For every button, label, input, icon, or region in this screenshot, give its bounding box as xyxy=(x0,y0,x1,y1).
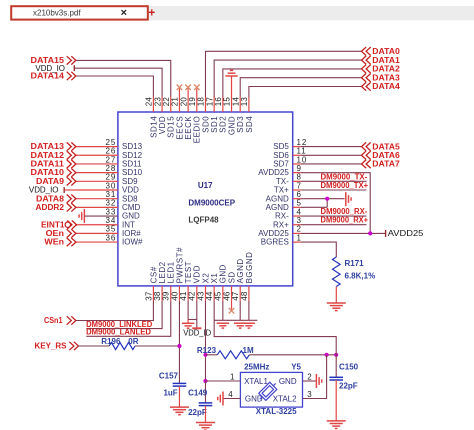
svg-text:DATA0: DATA0 xyxy=(372,47,400,56)
net label CSn1 xyxy=(44,316,76,325)
wire SD1 pin to DATA1 xyxy=(214,60,361,97)
ground at crystal pin 4 (sideways) xyxy=(218,392,223,406)
pin 12 SD5 stub (right) xyxy=(293,146,301,148)
svg-text:EINT1: EINT1 xyxy=(41,220,65,229)
net label DATA7 xyxy=(362,160,401,169)
wire TX+ with label DM9000_TX+ xyxy=(301,181,369,190)
svg-text:DATA13: DATA13 xyxy=(31,142,65,151)
net label OEn xyxy=(46,229,76,238)
svg-text:21: 21 xyxy=(171,97,180,107)
ground below R171 xyxy=(327,303,346,311)
svg-text:CMD: CMD xyxy=(122,203,140,212)
wire TEST pin 41 tie to pin 42 xyxy=(188,301,197,323)
net label DATA14 xyxy=(31,72,76,81)
svg-text:25: 25 xyxy=(105,138,116,147)
svg-text:SD3: SD3 xyxy=(236,116,245,133)
svg-text:AGND: AGND xyxy=(236,258,245,283)
pin 15 GND stub (top) xyxy=(231,97,233,112)
svg-text:IOR#: IOR# xyxy=(122,229,141,238)
capacitor C157 1uF xyxy=(159,372,186,398)
svg-text:DATA11: DATA11 xyxy=(31,160,65,169)
svg-text:EEDIO: EEDIO xyxy=(193,116,202,143)
pin 17 SD1 stub (top) xyxy=(213,97,215,112)
svg-text:13: 13 xyxy=(240,97,249,107)
svg-text:SD10: SD10 xyxy=(122,168,143,177)
net label WEn xyxy=(44,238,76,247)
svg-text:29: 29 xyxy=(105,173,116,182)
svg-text:1: 1 xyxy=(297,233,302,242)
svg-text:DATA2: DATA2 xyxy=(372,65,400,74)
wire DATA15 to pin 22 SD15 xyxy=(76,60,171,97)
pin 34 INT stub (left) xyxy=(75,224,118,226)
svg-text:DATA6: DATA6 xyxy=(372,151,400,160)
resistor R171 xyxy=(333,257,376,287)
svg-text:CS#: CS# xyxy=(149,266,158,283)
pin 25 SD13 stub (left) xyxy=(75,146,118,148)
svg-text:4: 4 xyxy=(297,207,302,216)
pin 23 VDD stub (top) xyxy=(161,97,163,112)
svg-text:SD7: SD7 xyxy=(273,160,289,169)
pin 36 IOW# stub (left) xyxy=(75,241,118,243)
svg-text:AVDD25: AVDD25 xyxy=(388,229,424,238)
junction X2/XTAL1/C149 xyxy=(203,379,207,383)
svg-text:SD: SD xyxy=(227,271,236,283)
power label VDD_IO (top) xyxy=(35,64,74,73)
svg-text:14: 14 xyxy=(231,97,240,107)
svg-text:42: 42 xyxy=(188,291,197,301)
wire C150 to ground xyxy=(335,380,337,421)
wire SD3 pin to DATA3 xyxy=(240,78,361,97)
net label DATA5 xyxy=(362,142,401,151)
svg-text:RX-: RX- xyxy=(275,212,289,221)
ground below C157 xyxy=(170,407,189,415)
svg-text:C149: C149 xyxy=(188,389,208,398)
svg-text:5: 5 xyxy=(297,199,302,208)
net label DATA15 xyxy=(31,56,76,65)
pin 11 SD6 stub (right) xyxy=(293,154,301,156)
wire KEY_RS to R196 xyxy=(79,345,110,347)
svg-text:DM9000_TX+: DM9000_TX+ xyxy=(321,181,369,190)
svg-text:30: 30 xyxy=(105,181,116,190)
crystal symbol xyxy=(256,380,279,403)
ground below pin 45 xyxy=(217,323,229,328)
svg-text:R123: R123 xyxy=(197,346,217,355)
pin 9 AVDD25 stub (right) xyxy=(293,172,301,174)
svg-text:45: 45 xyxy=(214,291,223,301)
svg-text:SD5: SD5 xyxy=(273,142,289,151)
svg-text:DATA3: DATA3 xyxy=(372,73,400,82)
svg-text:DATA12: DATA12 xyxy=(31,151,65,160)
pdf tab x210bv3s.pdf with red annotation box xyxy=(11,6,148,19)
svg-text:22pF: 22pF xyxy=(188,408,207,417)
svg-text:SD2: SD2 xyxy=(219,116,228,133)
junction R123/XTAL2 xyxy=(325,353,329,357)
svg-text:37: 37 xyxy=(144,291,153,301)
net label DATA2 xyxy=(362,65,401,74)
svg-text:WEn: WEn xyxy=(44,238,64,247)
ground below pin 48 xyxy=(243,323,255,328)
svg-text:CSn1: CSn1 xyxy=(44,316,63,325)
svg-text:38: 38 xyxy=(153,291,162,301)
svg-text:34: 34 xyxy=(105,216,116,225)
svg-text:26: 26 xyxy=(105,147,116,156)
net label DATA3 xyxy=(362,73,401,82)
no-connect pin 20 xyxy=(185,85,191,98)
svg-text:9: 9 xyxy=(297,164,302,173)
resistor R123 1M xyxy=(197,346,254,359)
net label DATA4 xyxy=(362,82,401,91)
svg-text:3: 3 xyxy=(307,390,312,399)
pin 47 AGND stub (bottom) xyxy=(239,286,241,301)
pin 5 AGND stub (right) xyxy=(293,206,301,208)
svg-text:7: 7 xyxy=(297,181,302,190)
svg-text:25MHz: 25MHz xyxy=(244,363,269,372)
wire AGND pins 6 and 5 tie xyxy=(301,199,345,208)
svg-text:LQFP48: LQFP48 xyxy=(188,215,219,224)
pin 10 SD7 stub (right) xyxy=(293,163,301,165)
svg-text:DATA14: DATA14 xyxy=(31,72,65,81)
svg-text:24: 24 xyxy=(145,97,154,107)
svg-text:SD9: SD9 xyxy=(122,177,138,186)
pin 3 RX+ stub (right) xyxy=(293,224,301,226)
wire SD2 pin to DATA2 xyxy=(223,69,362,97)
pin 16 SD2 stub (top) xyxy=(222,97,224,112)
svg-text:U17: U17 xyxy=(198,181,213,190)
svg-text:35: 35 xyxy=(105,225,116,234)
svg-text:36: 36 xyxy=(105,233,116,242)
svg-text:X1: X1 xyxy=(210,273,219,284)
pin 14 SD3 stub (top) xyxy=(239,97,241,112)
svg-text:2: 2 xyxy=(307,372,312,381)
pin 20 EECK stub (top) xyxy=(187,97,189,112)
svg-text:INT: INT xyxy=(122,220,135,229)
svg-text:SD14: SD14 xyxy=(149,116,158,138)
wire LED2 with label DM9000_LINKLED xyxy=(86,301,162,329)
wire SD7 to DATA7 xyxy=(301,163,362,165)
net label DATA1 xyxy=(362,56,401,65)
resistor R196 0R xyxy=(101,337,138,350)
pin 26 SD12 stub (left) xyxy=(75,154,118,156)
svg-text:VDD_IO: VDD_IO xyxy=(29,186,59,195)
ground at pin 33 GND xyxy=(79,209,118,223)
pin 35 IOR# stub (left) xyxy=(75,232,118,234)
svg-text:41: 41 xyxy=(179,291,188,301)
wire X1 pin 44 jog to XTAL2 net xyxy=(214,301,336,355)
power label VDD_IO (pin 30) xyxy=(29,186,76,195)
svg-text:28: 28 xyxy=(105,164,116,173)
svg-text:DATA1: DATA1 xyxy=(372,56,400,65)
svg-text:DATA8: DATA8 xyxy=(36,194,65,203)
svg-text:VDD: VDD xyxy=(158,116,167,134)
pin 38 LED2 stub (bottom) xyxy=(161,286,163,301)
svg-text:6: 6 xyxy=(297,190,302,199)
power label AVDD25 xyxy=(386,229,424,238)
svg-text:6.8K,1%: 6.8K,1% xyxy=(345,272,376,281)
svg-text:DATA4: DATA4 xyxy=(372,82,400,91)
svg-text:BGGND: BGGND xyxy=(245,252,254,284)
svg-text:RX+: RX+ xyxy=(273,220,289,229)
svg-text:39: 39 xyxy=(162,291,171,301)
svg-text:x210bv3s.pdf: x210bv3s.pdf xyxy=(33,9,81,18)
pin 45 GND stub (bottom) xyxy=(222,286,224,301)
svg-text:DM9000CEP: DM9000CEP xyxy=(188,199,235,208)
svg-text:12: 12 xyxy=(297,138,308,147)
net label DATA0 xyxy=(362,47,401,56)
svg-text:27: 27 xyxy=(105,155,116,164)
svg-text:GND: GND xyxy=(227,116,236,135)
svg-text:44: 44 xyxy=(205,291,214,301)
pin 8 TX- stub (right) xyxy=(293,180,301,182)
svg-text:SD4: SD4 xyxy=(245,116,254,133)
pin 4 RX- stub (right) xyxy=(293,215,301,217)
wire C149 to ground xyxy=(204,406,206,423)
junction AGND xyxy=(325,197,329,201)
pin 37 CS# stub (bottom) xyxy=(152,286,154,301)
svg-text:LED2: LED2 xyxy=(158,261,167,283)
svg-text:1M: 1M xyxy=(243,346,254,355)
svg-text:KEY_RS: KEY_RS xyxy=(35,342,68,351)
svg-text:DATA9: DATA9 xyxy=(36,177,65,186)
ground at pin 41 xyxy=(182,323,194,328)
pin 1 BGRES stub (right) xyxy=(293,241,301,243)
svg-text:VDD_ID: VDD_ID xyxy=(183,328,211,337)
svg-text:XTAL1: XTAL1 xyxy=(244,377,268,386)
ground at crystal pin 2 (sideways) xyxy=(316,374,321,388)
svg-text:SD11: SD11 xyxy=(122,160,142,169)
crystal pin 2 wire to ground xyxy=(303,372,317,381)
svg-text:8: 8 xyxy=(297,173,302,182)
pin 42 VDD stub (bottom) xyxy=(196,286,198,301)
svg-text:18: 18 xyxy=(197,97,206,107)
svg-text:EECS: EECS xyxy=(175,116,184,140)
svg-text:33: 33 xyxy=(105,207,116,216)
pin 7 TX+ stub (right) xyxy=(293,189,301,191)
svg-text:SD13: SD13 xyxy=(122,142,143,151)
crystal Y5 XTAL-3225 box xyxy=(240,363,302,417)
wire CSn1 to pin 37 CS# xyxy=(76,301,153,321)
svg-text:DM9000_LANLED: DM9000_LANLED xyxy=(86,328,151,337)
wire C157 to ground xyxy=(178,386,180,407)
net label DATA8 xyxy=(36,194,76,203)
pin 18 SD0 stub (top) xyxy=(204,97,206,112)
pin 30 VDD stub (left) xyxy=(75,189,118,191)
browser tab bar strip xyxy=(148,6,474,21)
net label DATA13 xyxy=(31,142,76,151)
pin 2 AVDD25 stub (right) xyxy=(293,232,301,234)
capacitor C150 22pF xyxy=(329,355,358,391)
svg-text:IOW#: IOW# xyxy=(122,238,143,247)
svg-text:SD15: SD15 xyxy=(167,116,176,138)
wire pin 40 down to C157 xyxy=(178,301,180,383)
pin 32 CMD stub (left) xyxy=(75,206,118,208)
svg-text:40: 40 xyxy=(170,291,179,301)
net label KEY_RS xyxy=(35,342,79,351)
wire X2 pin 43 down to crystal XTAL1 xyxy=(204,301,206,381)
ground below pin 47 xyxy=(234,323,246,328)
svg-text:16: 16 xyxy=(214,97,223,107)
net label DATA10 xyxy=(31,168,76,177)
no-connect pin 46 SD xyxy=(229,301,235,314)
svg-text:AGND: AGND xyxy=(266,203,289,212)
svg-text:TX+: TX+ xyxy=(274,186,289,195)
svg-text:11: 11 xyxy=(297,147,307,156)
wire BGRES pin 1 to R171 xyxy=(301,242,337,257)
svg-text:22: 22 xyxy=(162,97,171,107)
svg-text:19: 19 xyxy=(188,97,197,107)
net label EINT1 with bubble xyxy=(41,220,77,229)
svg-text:VDD: VDD xyxy=(193,265,202,283)
wire DATA14 to pin 24 SD14 xyxy=(76,76,153,97)
svg-text:PWRST#: PWRST# xyxy=(175,247,184,283)
svg-text:BGRES: BGRES xyxy=(261,238,289,247)
wire R171 to ground xyxy=(335,287,337,303)
IC U17 DM9000CEP LQFP48 body xyxy=(118,112,293,286)
no-connect pin 21 xyxy=(177,85,183,98)
svg-text:LED1: LED1 xyxy=(167,261,176,283)
pin 13 SD4 stub (top) xyxy=(248,97,250,112)
svg-text:SD0: SD0 xyxy=(201,116,210,133)
crystal pin 4 wire to ground xyxy=(223,390,240,399)
net label ADDR2 xyxy=(36,203,76,212)
ground bus pins 45 47 48 xyxy=(215,301,258,320)
wire R196 to pin 40 PWRST# net xyxy=(135,345,179,347)
wire SD5 to DATA5 xyxy=(301,146,362,148)
pin 31 SD8 stub (left) xyxy=(75,198,118,200)
crystal pin 1 wire xyxy=(205,372,240,381)
svg-text:C157: C157 xyxy=(159,372,179,381)
wire SD0 pin to DATA0 xyxy=(205,51,361,97)
svg-text:SD1: SD1 xyxy=(210,116,219,133)
wire TX- with label DM9000_TX- xyxy=(301,173,368,182)
pin 48 BGGND stub (bottom) xyxy=(248,286,250,301)
svg-text:R171: R171 xyxy=(345,259,365,268)
svg-text:GND: GND xyxy=(279,377,297,386)
pin 43 X2 stub (bottom) xyxy=(204,286,206,301)
pin 19 EEDIO stub (top) xyxy=(196,97,198,112)
crystal pin 3 wire up to XTAL2 net xyxy=(303,355,327,399)
net label DATA9 xyxy=(36,177,76,186)
svg-text:DM9000_RX+: DM9000_RX+ xyxy=(321,216,369,225)
svg-text:4: 4 xyxy=(228,390,233,399)
svg-text:32: 32 xyxy=(105,199,116,208)
svg-text:Y5: Y5 xyxy=(291,363,301,372)
ground below C150 xyxy=(327,421,346,429)
wire SD4 pin to DATA4 xyxy=(249,87,362,98)
svg-text:C150: C150 xyxy=(339,362,359,371)
svg-text:2: 2 xyxy=(297,225,302,234)
svg-text:R196: R196 xyxy=(101,337,121,346)
pin 27 SD11 stub (left) xyxy=(75,163,118,165)
svg-text:AVDD25: AVDD25 xyxy=(258,168,289,177)
svg-text:GND: GND xyxy=(219,264,228,283)
svg-text:SD6: SD6 xyxy=(273,151,289,160)
net label DATA11 xyxy=(31,160,76,169)
pin 39 LED1 stub (bottom) xyxy=(170,286,172,301)
svg-text:1uF: 1uF xyxy=(163,388,177,397)
svg-text:48: 48 xyxy=(240,291,249,301)
pin 33 GND stub (left) xyxy=(0,0,1,1)
svg-text:3: 3 xyxy=(297,216,302,225)
svg-text:✕: ✕ xyxy=(120,7,127,17)
net label DATA12 xyxy=(31,151,76,160)
wire RX- with label DM9000_RX- xyxy=(301,207,368,216)
junction X2/R123 xyxy=(203,353,207,357)
svg-text:17: 17 xyxy=(205,97,214,107)
svg-text:31: 31 xyxy=(105,190,116,199)
no-connect pin 19 xyxy=(194,85,200,98)
pin 24 SD14 stub (top) xyxy=(152,97,154,112)
svg-text:46: 46 xyxy=(222,291,231,301)
capacitor C149 22pF xyxy=(188,381,212,417)
svg-text:XTAL-3225: XTAL-3225 xyxy=(256,407,297,416)
pin 6 AGND stub (right) xyxy=(293,198,301,200)
svg-text:OEn: OEn xyxy=(46,229,65,238)
net label DATA6 xyxy=(362,151,401,160)
net AVDD25: pin 9 to pin 2 wire xyxy=(301,173,386,234)
svg-text:AGND: AGND xyxy=(266,194,289,203)
junction on AVDD25 net xyxy=(368,231,372,235)
svg-text:15: 15 xyxy=(223,97,232,107)
svg-text:0R: 0R xyxy=(128,337,138,346)
svg-text:DATA10: DATA10 xyxy=(31,168,65,177)
svg-text:20: 20 xyxy=(179,97,188,107)
pin 21 EECS stub (top) xyxy=(178,97,180,112)
wire pin 42 VDD down xyxy=(196,301,198,328)
svg-text:DATA7: DATA7 xyxy=(372,160,400,169)
wire SD6 to DATA6 xyxy=(301,154,362,156)
svg-text:43: 43 xyxy=(196,291,205,301)
svg-text:XTAL2: XTAL2 xyxy=(273,395,297,404)
junction KEY_RS / PWRST# xyxy=(177,344,181,348)
svg-text:+: + xyxy=(148,6,155,20)
svg-text:47: 47 xyxy=(231,291,240,301)
wire LED1 with label DM9000_LANLED xyxy=(86,301,171,337)
svg-text:VDD: VDD xyxy=(122,186,139,195)
junction XTAL2/C150 xyxy=(334,353,338,357)
svg-text:DATA5: DATA5 xyxy=(372,142,400,151)
svg-text:22pF: 22pF xyxy=(339,382,358,391)
svg-text:X2: X2 xyxy=(201,273,210,284)
svg-text:TEST: TEST xyxy=(184,261,193,283)
svg-text:1: 1 xyxy=(230,372,235,381)
wire R123 to XTAL2 net xyxy=(249,354,336,356)
pin 46 SD stub (bottom) xyxy=(231,286,233,301)
wire RX+ with label DM9000_RX+ xyxy=(301,216,369,225)
power symbol VDD_ID xyxy=(183,328,211,337)
pin 28 SD10 stub (left) xyxy=(75,172,118,174)
pin 40 PWRST# stub (bottom) xyxy=(178,286,180,301)
ground AGND (sideways) xyxy=(346,192,351,206)
svg-text:GND: GND xyxy=(122,212,140,221)
pin 41 TEST stub (bottom) xyxy=(187,286,189,301)
svg-text:10: 10 xyxy=(297,155,308,164)
pin 44 X1 stub (bottom) xyxy=(213,286,215,301)
pin 22 SD15 stub (top) xyxy=(170,97,172,112)
wire VDD_IO to pin 23 VDD xyxy=(74,68,162,97)
svg-text:TX-: TX- xyxy=(276,177,289,186)
svg-text:AVDD25: AVDD25 xyxy=(258,229,289,238)
ground at pin 15 GND (top) xyxy=(225,70,237,97)
svg-text:23: 23 xyxy=(153,97,162,107)
svg-text:EECK: EECK xyxy=(184,116,193,140)
svg-text:SD12: SD12 xyxy=(122,151,143,160)
ground below C149 xyxy=(196,423,215,430)
svg-text:SD8: SD8 xyxy=(122,194,138,203)
pin 29 SD9 stub (left) xyxy=(75,180,118,182)
svg-text:ADDR2: ADDR2 xyxy=(36,203,65,212)
